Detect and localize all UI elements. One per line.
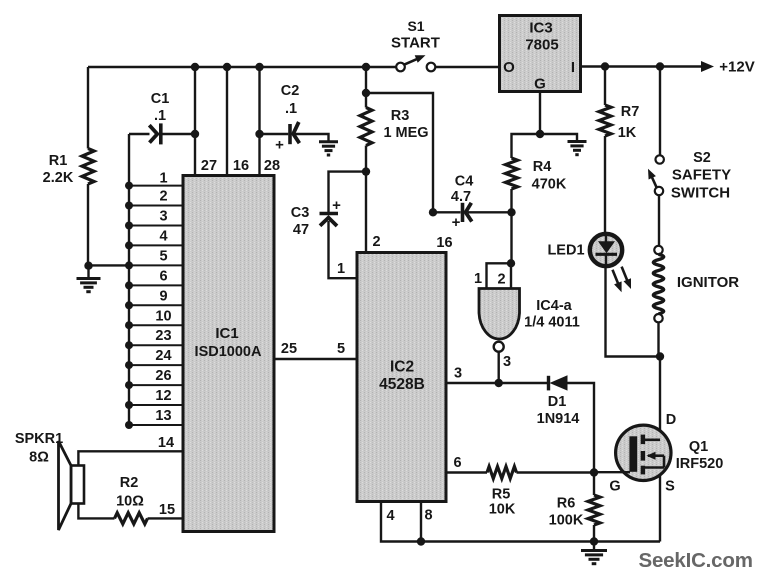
- junction bus rung 3: [125, 222, 133, 230]
- junction gate node: [590, 468, 598, 476]
- junction NAND output / pin3 line: [495, 379, 503, 387]
- wire G node to ground: [540, 134, 577, 141]
- svg-text:5: 5: [159, 248, 167, 264]
- wire bottom rail: [421, 540, 660, 542]
- switch S2: [656, 155, 664, 163]
- junction top rail / pin27: [191, 63, 199, 71]
- wire IC2 pin 8 stub: [420, 501, 422, 542]
- junction bus rung 12: [125, 401, 133, 409]
- junction bottom rail ground: [590, 537, 598, 545]
- svg-text:D: D: [666, 412, 676, 428]
- speaker SPKR1: [71, 466, 84, 504]
- svg-text:SeekIC.com: SeekIC.com: [639, 549, 753, 572]
- wire top rail to S2: [659, 67, 661, 156]
- wire pin rung 10: [129, 364, 182, 366]
- diode D1: [547, 376, 550, 391]
- junction bus rung 6: [125, 281, 133, 289]
- svg-text:1K: 1K: [618, 125, 637, 141]
- wire gate node to Q1 gate: [594, 471, 630, 473]
- wire C1 to pin27 line: [163, 133, 196, 135]
- capacitor C4: [461, 203, 465, 222]
- svg-text:28: 28: [264, 158, 280, 174]
- wire LED1 to drain rail: [606, 266, 661, 357]
- svg-text:R1: R1: [49, 153, 68, 169]
- svg-text:IGNITOR: IGNITOR: [677, 274, 739, 291]
- svg-text:16: 16: [436, 235, 452, 251]
- svg-text:4528B: 4528B: [379, 376, 425, 393]
- junction bus rung 8: [125, 321, 133, 329]
- wire R2 to speaker: [78, 503, 114, 518]
- svg-text:G: G: [534, 76, 546, 93]
- wire NAND input bracket: [487, 263, 512, 288]
- ground at bottom rail: [593, 542, 595, 550]
- svg-text:23: 23: [155, 328, 171, 344]
- wire IC1 left pin bus: [128, 134, 130, 425]
- svg-text:S2: S2: [693, 150, 711, 166]
- svg-text:R4: R4: [533, 159, 552, 175]
- junction C1 / pin27 line: [191, 130, 199, 138]
- junction top rail / R7 branch: [601, 62, 609, 70]
- wire IC2 pin 4 stub: [381, 501, 421, 542]
- wire R7 to LED1: [604, 136, 606, 233]
- svg-text:4: 4: [159, 229, 167, 245]
- svg-text:6: 6: [159, 268, 167, 284]
- svg-text:ISD1000A: ISD1000A: [195, 344, 262, 360]
- svg-text:IC3: IC3: [529, 20, 552, 37]
- svg-text:10: 10: [155, 308, 171, 324]
- wire IC3 G pin down: [539, 93, 541, 134]
- wire pin28 line to C2: [260, 133, 289, 135]
- svg-text:R3: R3: [391, 108, 410, 124]
- svg-text:C2: C2: [281, 83, 300, 99]
- junction IC3 G node: [536, 130, 544, 138]
- wire pin rung 13: [129, 424, 182, 426]
- svg-text:S1: S1: [407, 18, 424, 34]
- wire pin rung 8: [129, 324, 182, 326]
- wire ground node to pin bus: [89, 264, 130, 266]
- svg-text:25: 25: [281, 341, 297, 357]
- svg-text:5: 5: [337, 341, 345, 357]
- svg-text:SWITCH: SWITCH: [671, 185, 730, 202]
- svg-text:I: I: [571, 59, 575, 76]
- svg-text:8: 8: [424, 508, 432, 524]
- capacitor C1: [149, 125, 157, 142]
- wire R3 to junction: [365, 146, 367, 172]
- svg-text:+: +: [332, 197, 341, 214]
- svg-text:100K: 100K: [549, 513, 584, 529]
- wire pin 16 of IC1: [226, 67, 228, 174]
- svg-text:R7: R7: [621, 104, 640, 120]
- junction top rail / pin16: [223, 63, 231, 71]
- svg-text:3: 3: [454, 366, 462, 382]
- wire pin 27 of IC1: [194, 67, 196, 174]
- junction C4 left: [429, 208, 437, 216]
- wire pin rung 11: [129, 384, 182, 386]
- svg-text:SAFETY: SAFETY: [672, 167, 731, 184]
- svg-text:4.7: 4.7: [451, 189, 471, 205]
- svg-text:C1: C1: [151, 91, 170, 107]
- wire R5 to gate node: [517, 471, 595, 473]
- junction C2 / pin28 line: [255, 130, 263, 138]
- wire NAND output: [498, 352, 500, 383]
- junction bus rung 1: [125, 182, 133, 190]
- svg-text:24: 24: [155, 348, 171, 364]
- wire junction to C3: [329, 172, 367, 213]
- wire R4 to NAND inputs: [510, 189, 512, 212]
- resistor R6: [593, 473, 595, 496]
- resistor R3: [365, 93, 367, 108]
- svg-text:IRF520: IRF520: [676, 456, 724, 472]
- junction bus rung 11: [125, 381, 133, 389]
- wire bottom rail to Q1 source: [659, 468, 661, 542]
- IC IC2 4528B: [357, 253, 446, 502]
- svg-text:2: 2: [159, 189, 167, 205]
- wire pin 25 IC1 to pin 5 IC2: [274, 358, 356, 360]
- wire pin rung 12: [129, 404, 182, 406]
- svg-text:15: 15: [159, 502, 175, 518]
- ground at IC3 G: [568, 140, 587, 143]
- svg-text:R2: R2: [120, 475, 139, 491]
- svg-text:SPKR1: SPKR1: [15, 431, 63, 447]
- resistor R1: [82, 149, 94, 185]
- svg-text:IC4-a: IC4-a: [536, 298, 572, 314]
- svg-text:12: 12: [155, 388, 171, 404]
- wire pin 15 segment right: [148, 517, 184, 519]
- wire junction to IC2 pin 2: [365, 172, 367, 252]
- wire ignitor to drain rail: [657, 322, 659, 356]
- wire pin 28 of IC1: [258, 134, 260, 174]
- svg-text:.1: .1: [154, 108, 166, 124]
- capacitor C3: [320, 212, 339, 216]
- ground at C2: [319, 140, 338, 143]
- junction bus rung 2: [125, 202, 133, 210]
- IC IC1 ISD1000A: [183, 176, 274, 532]
- resistor R2: [115, 513, 148, 524]
- wire C2 to ground: [295, 134, 329, 141]
- svg-text:1: 1: [474, 271, 482, 287]
- transistor Q1 IRF520: [616, 425, 671, 480]
- svg-text:1: 1: [159, 171, 167, 187]
- wire pin rung 7: [129, 304, 182, 306]
- junction bus rung 7: [125, 301, 133, 309]
- resistor R4: [506, 158, 518, 189]
- svg-text:10Ω: 10Ω: [116, 494, 144, 510]
- svg-text:G: G: [609, 479, 620, 495]
- svg-text:1 MEG: 1 MEG: [383, 125, 428, 141]
- resistor R7: [599, 105, 611, 136]
- svg-text:10K: 10K: [489, 502, 516, 518]
- svg-text:2.2K: 2.2K: [43, 170, 74, 186]
- svg-text:47: 47: [293, 222, 309, 238]
- wire pin rung 6: [129, 284, 182, 286]
- voltage regulator IC3 7805: [500, 16, 581, 92]
- wire pin rung 1: [129, 185, 182, 187]
- wire pin rung 3: [129, 225, 182, 227]
- svg-text:+: +: [275, 137, 284, 154]
- svg-text:26: 26: [155, 368, 171, 384]
- wire G node to R4 branch: [512, 134, 541, 158]
- svg-text:START: START: [391, 35, 440, 52]
- svg-text:27: 27: [201, 158, 217, 174]
- wire bus corner to C1: [129, 133, 150, 135]
- svg-text:4: 4: [386, 508, 394, 524]
- wire pin rung 9: [129, 344, 182, 346]
- wire drain rail to Q1 drain: [659, 357, 661, 441]
- junction bus rung 10: [125, 361, 133, 369]
- junction top rail / R3 branch: [362, 63, 370, 71]
- LED LED1: [590, 234, 622, 266]
- wire +12V top rail left segment: [88, 66, 396, 68]
- svg-text:1: 1: [337, 261, 345, 277]
- svg-text:14: 14: [158, 435, 174, 451]
- svg-text:Q1: Q1: [689, 439, 708, 455]
- svg-text:16: 16: [233, 158, 249, 174]
- wire D1 to gate node: [568, 383, 595, 473]
- svg-text:8Ω: 8Ω: [29, 450, 49, 466]
- wire top rail S1 to IC3: [435, 66, 498, 68]
- ignitor element IGNITOR: [654, 246, 662, 254]
- wire top rail to R7: [604, 67, 606, 106]
- wire IC2 pin 3 to D1: [446, 382, 548, 384]
- wire branch to pin16 line of IC2: [366, 93, 433, 212]
- wire S2 to ignitor: [658, 195, 660, 246]
- NAND gate IC4-a: [479, 289, 520, 340]
- svg-text:C3: C3: [291, 205, 310, 221]
- junction bus rung 9: [125, 341, 133, 349]
- svg-text:1/4 4011: 1/4 4011: [524, 315, 580, 331]
- wire pin rung 4: [129, 244, 182, 246]
- wire R6 to bottom rail: [593, 525, 595, 542]
- wire top rail down to R3: [365, 67, 367, 93]
- wire IC2 pin 6 to R5: [446, 471, 487, 473]
- junction bus rung 13: [125, 421, 133, 429]
- wire C4 to R4 node: [468, 211, 512, 213]
- svg-text:+: +: [452, 214, 461, 231]
- svg-text:LED1: LED1: [547, 243, 584, 259]
- resistor R5: [487, 467, 517, 479]
- wire pin rung 2: [129, 205, 182, 207]
- svg-text:D1: D1: [548, 394, 567, 410]
- svg-text:2: 2: [497, 272, 505, 288]
- junction R4 bottom node: [507, 208, 515, 216]
- svg-text:R5: R5: [492, 487, 511, 503]
- svg-text:6: 6: [453, 455, 461, 471]
- svg-text:13: 13: [155, 408, 171, 424]
- svg-text:IC1: IC1: [215, 325, 238, 342]
- junction bus rung 5: [125, 261, 133, 269]
- svg-text:3: 3: [159, 209, 167, 225]
- wire pin rung 5: [129, 264, 182, 266]
- junction R3 bottom / C3 branch: [362, 167, 370, 175]
- wire top rail IC3 to +12V arrow: [582, 65, 701, 67]
- junction drain rail / LED: [656, 352, 664, 360]
- svg-text:.1: .1: [285, 101, 297, 117]
- wire top rail down to R1: [87, 67, 89, 149]
- capacitor C2: [288, 124, 292, 144]
- svg-text:S: S: [665, 479, 675, 495]
- svg-text:O: O: [503, 59, 515, 76]
- junction R3 / C4 branch: [362, 89, 370, 97]
- wire C3 to IC2 pin 1: [329, 221, 357, 278]
- wire R1 to ground junction: [87, 184, 89, 266]
- ground below R1: [87, 265, 89, 277]
- svg-text:470K: 470K: [532, 177, 567, 193]
- junction NAND input node: [507, 259, 515, 267]
- svg-text:3: 3: [503, 354, 511, 370]
- wire pin16 line to C4: [433, 211, 461, 213]
- svg-text:+12V: +12V: [719, 59, 754, 76]
- svg-text:C4: C4: [455, 174, 474, 190]
- junction R1 ground node: [84, 262, 92, 270]
- svg-text:9: 9: [159, 288, 167, 304]
- junction top rail / S2 branch: [656, 62, 664, 70]
- junction pin8 / bottom rail: [417, 537, 425, 545]
- svg-text:2: 2: [372, 234, 380, 250]
- junction bus rung 4: [125, 241, 133, 249]
- svg-text:R6: R6: [557, 496, 576, 512]
- svg-text:IC2: IC2: [390, 359, 414, 376]
- svg-text:1N914: 1N914: [537, 411, 580, 427]
- switch S1: [396, 63, 405, 72]
- junction top rail / pin28: [255, 63, 263, 71]
- wire pin 14 to speaker: [78, 451, 183, 466]
- svg-text:7805: 7805: [525, 37, 558, 54]
